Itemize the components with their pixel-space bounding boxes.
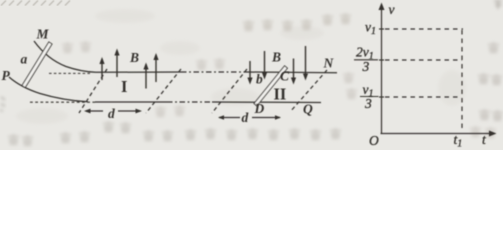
far rail solid segment through region II to N [247, 71, 337, 74]
rod a [22, 42, 52, 88]
far rail MN solid segment through region I [96, 71, 181, 73]
svg-text:I: I [121, 77, 127, 96]
near rail PQ solid segment [95, 101, 167, 103]
y axis [381, 6, 383, 134]
svg-text:Q: Q [303, 102, 313, 117]
near curved rail (ramp) [9, 77, 88, 102]
svg-text:C: C [280, 69, 290, 84]
near rail dashed lead-in [30, 101, 95, 103]
bleed-through faint text right column [478, 42, 503, 121]
svg-text:M: M [36, 27, 50, 42]
region I d dimension arrows [86, 110, 140, 112]
dashed line v1/3 [385, 96, 461, 98]
svg-text:II: II [274, 85, 287, 104]
region I left dashed edge [79, 69, 107, 113]
fraction bar 2v1/3 [354, 59, 378, 61]
main figure ink [9, 41, 337, 120]
region I field arrow 3 [145, 65, 147, 89]
bleed-through scattered faint glyphs [62, 41, 496, 138]
svg-text:P: P [2, 68, 11, 83]
x axis [381, 133, 493, 135]
tick 2v1/3 [379, 59, 384, 61]
near rail solid segment through region II to Q [212, 101, 321, 104]
far rail dashed lead-in [49, 72, 90, 74]
paper mottling [16, 9, 466, 124]
far rail dashed gap segment [181, 71, 247, 73]
bleed-through faint text row top-middle [243, 13, 351, 31]
svg-text:O: O [369, 133, 379, 148]
dashed line 2v1/3 [385, 59, 462, 61]
svg-text:d: d [108, 106, 115, 121]
dashed vertical at t1 [461, 30, 463, 132]
region II field arrow 4 (down) [305, 46, 307, 74]
region I field arrow 4 [155, 55, 157, 82]
tick v1 [379, 28, 384, 30]
bleed-through corner mark top-right [494, 0, 502, 9]
svg-text:3: 3 [362, 59, 370, 74]
svg-text:a: a [21, 52, 28, 67]
region II field arrow 2 (down) [264, 51, 266, 73]
region II field arrow 1 (down) [249, 61, 251, 78]
tick v1/3 [379, 96, 384, 98]
region I field arrow 2 [116, 51, 118, 77]
figure labels [2, 27, 335, 126]
v-t graph [379, 3, 497, 137]
rod b [254, 66, 287, 106]
bleed-through faint text bottom row [8, 121, 341, 146]
near rail dashed gap segment [167, 101, 212, 103]
svg-text:N: N [323, 56, 335, 71]
fraction bar v1/3 [360, 96, 379, 98]
region I right dashed edge [146, 69, 181, 113]
svg-text:B: B [129, 50, 139, 65]
svg-text:v: v [389, 2, 395, 17]
region II d dimension arrows [219, 117, 280, 119]
region II field arrow 3 (down) [293, 59, 295, 79]
svg-text:D: D [254, 101, 265, 116]
bleed-through small marks left edge [0, 97, 5, 111]
dashed line v1 [385, 28, 463, 30]
paper background [0, 0, 503, 150]
svg-text:B: B [271, 50, 281, 65]
bleed-through hatching top-left [1, 1, 70, 6]
region I field arrow 1 [101, 59, 103, 80]
region II right dashed edge [290, 70, 327, 112]
svg-text:3: 3 [364, 96, 372, 111]
region II left dashed edge [212, 69, 247, 113]
svg-text:d: d [242, 110, 249, 125]
far curved rail (ramp) [34, 41, 96, 72]
svg-text:b: b [256, 72, 263, 87]
